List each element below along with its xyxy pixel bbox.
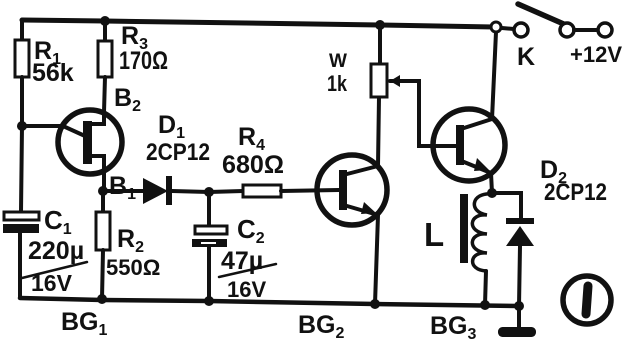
wire C1 to ground rail — [18, 232, 22, 298]
diode D1 — [143, 176, 172, 205]
wire C2 to ground rail — [207, 247, 211, 301]
resistor R3 — [98, 41, 112, 77]
wire BG2 collector to W — [378, 97, 379, 166]
potentiometer W — [371, 64, 404, 97]
svg-text:W: W — [329, 51, 347, 72]
node ground — [514, 301, 524, 311]
transistor BG3 — [433, 109, 505, 181]
diode D2 — [506, 218, 534, 246]
node L ground — [480, 300, 490, 310]
wire BG3 collector to rail — [492, 32, 496, 119]
fraction line C1 — [22, 262, 87, 278]
resistor R1 — [15, 40, 29, 77]
wire D1 to node C2 — [172, 191, 209, 192]
svg-text:550Ω: 550Ω — [106, 255, 160, 280]
wire D2 to ground rail — [519, 246, 520, 306]
resistor R4 — [243, 185, 281, 197]
svg-text:47µ: 47µ — [221, 247, 263, 275]
wire B1 to R2 — [101, 191, 105, 212]
wire rail to W — [378, 25, 382, 64]
wire node to D2 — [492, 193, 521, 218]
svg-text:16V: 16V — [31, 270, 73, 296]
wire R1 to base node — [20, 77, 24, 126]
svg-text:+12V: +12V — [570, 42, 622, 67]
wire R4 to BG2 base — [281, 190, 339, 191]
node L top — [487, 188, 497, 198]
wire node to R4 — [209, 191, 243, 192]
node top of W — [375, 20, 385, 30]
wire B1 to D1 — [103, 189, 143, 193]
node C2 ground — [204, 296, 214, 306]
wire rail to R1 — [20, 20, 24, 40]
wire L to ground rail — [485, 271, 486, 305]
wire node to C2 — [207, 192, 211, 226]
inductor L — [460, 194, 492, 271]
svg-text:2CP12: 2CP12 — [544, 179, 607, 206]
wire base lead BG1 — [22, 124, 63, 128]
wire bottom ground rail — [20, 298, 519, 306]
wire rail to R3 — [103, 21, 107, 41]
svg-text:220µ: 220µ — [28, 237, 84, 265]
svg-text:16V: 16V — [227, 277, 266, 302]
wire base node to C1 — [21, 126, 22, 212]
resistor R2 — [96, 212, 110, 250]
svg-text:2CP12: 2CP12 — [146, 139, 210, 166]
wire BG2 emitter to rail — [375, 215, 378, 304]
node top of R3 — [100, 16, 110, 26]
wire top supply rail — [22, 20, 494, 27]
svg-text:170Ω: 170Ω — [119, 47, 168, 75]
switch K — [491, 4, 612, 37]
transistor BG2 — [317, 155, 387, 225]
wire R3 to BG1 collector — [104, 77, 105, 112]
figure number I — [563, 276, 611, 324]
node BG2 emitter ground — [370, 299, 380, 309]
svg-text:680Ω: 680Ω — [222, 151, 284, 179]
svg-text:K: K — [517, 43, 535, 71]
fraction line C2 — [219, 264, 276, 277]
ground — [498, 306, 536, 337]
transistor BG1 — [58, 110, 122, 191]
node R2 ground — [97, 294, 107, 304]
capacitor C2 — [192, 226, 227, 247]
wire W wiper to BG3 base — [404, 81, 457, 146]
wire BG3 emitter to node — [491, 173, 492, 193]
wire R2 to ground rail — [102, 250, 103, 299]
capacitor C1 — [3, 212, 39, 233]
svg-text:L: L — [424, 216, 444, 253]
node base of BG1 — [17, 121, 27, 131]
svg-text:56k: 56k — [32, 59, 74, 87]
node C2 top — [204, 187, 214, 197]
node B1 — [98, 186, 108, 196]
svg-text:1k: 1k — [327, 71, 348, 96]
